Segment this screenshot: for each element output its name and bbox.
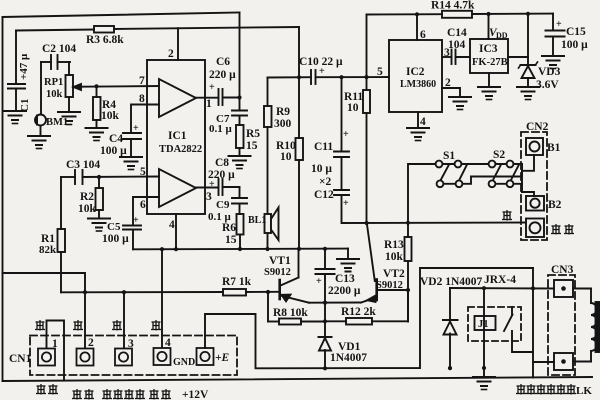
wire pin4 bbox=[175, 214, 177, 250]
label red bbox=[112, 320, 122, 331]
svg-text:15: 15 bbox=[246, 140, 258, 152]
wire IC2 pin6 bbox=[416, 14, 418, 40]
ground under relay bbox=[473, 377, 495, 390]
wire inner top line (R3 line) bbox=[16, 30, 94, 32]
svg-text:C11: C11 bbox=[314, 141, 333, 153]
zener diode VD3 bbox=[519, 62, 538, 86]
svg-text:7: 7 bbox=[139, 75, 145, 87]
svg-text:C14: C14 bbox=[447, 27, 467, 39]
svg-text:+12V: +12V bbox=[182, 389, 209, 400]
diode VD2 bbox=[443, 288, 458, 368]
svg-text:2: 2 bbox=[445, 77, 451, 89]
switch S2 blades bbox=[494, 166, 501, 180]
svg-text:S1: S1 bbox=[443, 150, 455, 162]
wire top outer line bbox=[3, 13, 240, 18]
socket CN3 top bbox=[554, 280, 573, 297]
wire output pin3 bbox=[196, 187, 219, 189]
svg-text:FK-27B: FK-27B bbox=[472, 57, 508, 68]
svg-text:R13: R13 bbox=[384, 239, 404, 251]
wire S1 feed bbox=[408, 164, 436, 237]
relay J1 coil bbox=[483, 288, 485, 376]
resistor R7 bbox=[223, 289, 246, 296]
wire supply top line bbox=[367, 13, 443, 15]
svg-text:+: + bbox=[209, 179, 215, 190]
svg-text:15: 15 bbox=[225, 234, 237, 246]
svg-text:R3 6.8k: R3 6.8k bbox=[86, 34, 124, 46]
capacitor C8 bbox=[219, 179, 240, 195]
svg-text:6: 6 bbox=[420, 29, 426, 41]
wire socket2 line bbox=[3, 273, 86, 348]
svg-text:LK: LK bbox=[576, 385, 592, 397]
ground at bus end bbox=[337, 259, 359, 272]
wire right vertical upper bbox=[239, 13, 241, 111]
svg-text:10 μ: 10 μ bbox=[311, 163, 332, 175]
relay J1 coil box bbox=[475, 316, 496, 330]
wire +E feed bbox=[205, 268, 533, 368]
svg-text:8: 8 bbox=[139, 93, 145, 105]
wire ground-bus end stem bbox=[347, 249, 349, 258]
svg-text:100 μ: 100 μ bbox=[561, 39, 588, 51]
svg-text:10k: 10k bbox=[78, 203, 97, 215]
resistor R13 bbox=[405, 237, 412, 322]
svg-text:R9: R9 bbox=[276, 106, 290, 118]
svg-text:C9: C9 bbox=[216, 199, 230, 211]
capacitor C4 bbox=[123, 133, 141, 156]
wire VT1 base line bbox=[61, 291, 223, 293]
label ground-wire bbox=[149, 389, 171, 400]
svg-text:1N4007: 1N4007 bbox=[330, 352, 367, 364]
wire switch row1 bbox=[436, 163, 522, 165]
socket CN1-4 bbox=[154, 348, 171, 365]
label lock-coil LK bbox=[516, 384, 592, 397]
svg-text:LM3860: LM3860 bbox=[400, 79, 436, 90]
svg-text:R6: R6 bbox=[222, 222, 236, 234]
svg-text:10k: 10k bbox=[46, 89, 63, 100]
resistor R9 bbox=[264, 78, 272, 250]
svg-text:3: 3 bbox=[128, 338, 134, 350]
switch S1 contacts bbox=[436, 161, 463, 188]
ground under C1 bbox=[4, 111, 26, 124]
wire VD3 stem bbox=[527, 14, 529, 64]
svg-text:BM1: BM1 bbox=[46, 117, 68, 128]
wire line to IC2 pin5 bbox=[316, 76, 390, 78]
wire left border bbox=[2, 17, 4, 381]
svg-text:10k: 10k bbox=[101, 110, 120, 122]
socket CN1-2 bbox=[77, 349, 94, 366]
svg-text:VT2: VT2 bbox=[383, 268, 405, 280]
ground under VD3 bbox=[517, 87, 539, 100]
capacitor C14 bbox=[452, 50, 471, 65]
op-amp U1a triangle bbox=[159, 79, 196, 117]
svg-text:J1: J1 bbox=[478, 319, 489, 330]
wire IC2 pin2 bbox=[442, 88, 460, 96]
wire socket1 hook bbox=[47, 321, 65, 381]
wire C15 stem bbox=[552, 14, 554, 31]
svg-text:+: + bbox=[209, 82, 215, 93]
wire CN3 bottom to coil bbox=[573, 361, 591, 363]
ground under R5 bbox=[229, 156, 251, 169]
resistor R11 bbox=[363, 90, 370, 223]
wire switch middle link bbox=[471, 164, 522, 177]
svg-text:VT1: VT1 bbox=[269, 255, 291, 267]
svg-text:C12: C12 bbox=[314, 189, 334, 201]
wire IC2 pin4 bbox=[417, 112, 419, 127]
svg-text:10: 10 bbox=[347, 102, 359, 114]
potentiometer RP1 bbox=[66, 62, 82, 111]
wire pin2 bbox=[177, 28, 179, 60]
diode VD1 bbox=[319, 337, 332, 368]
svg-text:C1: C1 bbox=[19, 99, 31, 112]
svg-text:+: + bbox=[133, 215, 139, 226]
socket bell bbox=[526, 219, 544, 238]
wire relay mid line to CN3 bbox=[450, 287, 554, 290]
wire C10 feed line bbox=[268, 76, 312, 78]
socket B1 bbox=[526, 138, 543, 155]
wire C1 stem bbox=[15, 31, 17, 85]
svg-text:IC2: IC2 bbox=[406, 66, 425, 78]
svg-text:+: + bbox=[316, 276, 322, 287]
svg-text:VD2 1N4007: VD2 1N4007 bbox=[420, 276, 483, 288]
capacitor C3 bbox=[61, 170, 83, 184]
capacitor C11 bbox=[334, 77, 349, 157]
svg-text:5: 5 bbox=[377, 66, 383, 78]
wire IC3 to VD3 bbox=[508, 56, 528, 58]
wire pin8 line bbox=[131, 105, 159, 134]
wire CN3 top to coil bbox=[573, 288, 591, 290]
svg-text:S2: S2 bbox=[493, 149, 505, 161]
wire slant to VT2 base bbox=[367, 223, 375, 281]
wire switch row2 right bbox=[490, 183, 522, 185]
label green bbox=[73, 320, 83, 331]
svg-text:B1: B1 bbox=[547, 142, 561, 154]
capacitor C13 bbox=[316, 249, 335, 337]
svg-text:IC1: IC1 bbox=[168, 130, 187, 142]
connector CN3 dashed box bbox=[548, 275, 575, 375]
capacitor C12 bbox=[334, 157, 349, 195]
wire B1 drop bbox=[522, 155, 534, 171]
ground under R2 bbox=[88, 219, 110, 232]
svg-text:C15: C15 bbox=[566, 26, 586, 38]
svg-text:C5: C5 bbox=[107, 221, 121, 233]
socket CN1-1 bbox=[38, 349, 55, 366]
wire emitter line bbox=[309, 302, 361, 304]
wire IC2 pin3 bbox=[442, 56, 452, 58]
svg-text:CN1: CN1 bbox=[9, 353, 32, 365]
socket CN1-+E bbox=[197, 348, 214, 365]
microphone BM1 bbox=[35, 115, 46, 126]
socket B2 bbox=[526, 196, 544, 211]
svg-text:R2: R2 bbox=[80, 191, 94, 203]
svg-text:JRX-4: JRX-4 bbox=[484, 274, 516, 286]
svg-text:300: 300 bbox=[274, 118, 292, 130]
wire BM1 stem bbox=[40, 62, 42, 115]
wire bottom border bbox=[3, 377, 593, 381]
svg-text:1: 1 bbox=[52, 338, 58, 350]
connector CN1 dashed box bbox=[30, 336, 237, 376]
svg-text:6: 6 bbox=[140, 199, 146, 211]
connector CN2 dashed box bbox=[521, 132, 547, 240]
wire ground bus bbox=[133, 248, 348, 251]
op-amp IC1 box bbox=[147, 60, 205, 214]
ground at IC2 pin2 bbox=[449, 97, 471, 110]
svg-text:×2: ×2 bbox=[319, 176, 332, 188]
svg-text:+E: +E bbox=[215, 352, 230, 364]
capacitor C10 bbox=[311, 70, 316, 84]
speaker BL1 bbox=[265, 208, 279, 241]
resistor R12 bbox=[325, 290, 408, 325]
IC2 LM3860 box bbox=[389, 40, 442, 112]
relay contact blade bbox=[504, 307, 533, 352]
transistor VT2 bbox=[361, 280, 408, 303]
svg-text:4: 4 bbox=[420, 116, 426, 128]
svg-text:R14 4.7k: R14 4.7k bbox=[431, 0, 475, 12]
svg-text:104: 104 bbox=[448, 39, 466, 51]
resistor R10 bbox=[296, 27, 304, 249]
svg-text:100 μ: 100 μ bbox=[102, 233, 129, 245]
capacitor C1 bbox=[8, 84, 25, 89]
svg-text:R12 2k: R12 2k bbox=[341, 306, 376, 318]
socket CN1-3 bbox=[115, 349, 132, 366]
svg-text:2: 2 bbox=[88, 337, 94, 349]
svg-text:2200 μ: 2200 μ bbox=[328, 285, 361, 297]
svg-text:TDA2822: TDA2822 bbox=[159, 144, 202, 155]
svg-text:GND: GND bbox=[173, 357, 195, 368]
label yellow bbox=[35, 320, 45, 331]
ground under RP1 bbox=[58, 112, 80, 125]
resistor R6 bbox=[237, 204, 244, 250]
socket CN3 bottom bbox=[554, 353, 573, 370]
svg-text:+: + bbox=[556, 19, 562, 30]
svg-text:C6: C6 bbox=[216, 56, 230, 68]
resistor R2 bbox=[96, 177, 104, 218]
label unlock bbox=[36, 384, 58, 395]
resistor R14 bbox=[442, 11, 472, 18]
svg-text:R7 1k: R7 1k bbox=[222, 276, 252, 288]
svg-text:DD: DD bbox=[496, 31, 508, 40]
svg-text:3: 3 bbox=[206, 191, 212, 203]
svg-text:0.1 μ: 0.1 μ bbox=[209, 123, 233, 135]
label C1 rotated bbox=[18, 53, 31, 112]
svg-text:S9012: S9012 bbox=[264, 267, 291, 278]
svg-text:C2 104: C2 104 bbox=[42, 43, 76, 55]
relay JRX-4 dashed box bbox=[468, 307, 521, 341]
wire switch row2 left bbox=[439, 177, 471, 184]
svg-text:+: + bbox=[319, 66, 325, 77]
svg-text:RP1: RP1 bbox=[44, 77, 63, 88]
transistor VT1 bbox=[280, 249, 309, 303]
resistor R8 bbox=[268, 292, 325, 325]
wire socket3 line bbox=[123, 292, 125, 348]
wire IC3 VDD feed bbox=[488, 14, 490, 39]
svg-text:C8: C8 bbox=[215, 157, 229, 169]
svg-text:CN2: CN2 bbox=[526, 121, 549, 133]
capacitor C2 bbox=[41, 55, 70, 69]
wire pin5 line bbox=[83, 176, 160, 179]
wire CN3 bottom link bbox=[533, 361, 554, 363]
wire relay right vertical bbox=[532, 268, 534, 378]
label black bbox=[151, 320, 161, 331]
svg-text:C13: C13 bbox=[335, 273, 355, 285]
svg-text:100 μ: 100 μ bbox=[100, 145, 127, 157]
capacitor C7 bbox=[232, 111, 247, 116]
IC3 FK-27B box bbox=[470, 39, 508, 73]
svg-text:CN3: CN3 bbox=[551, 264, 574, 276]
svg-text:2: 2 bbox=[168, 48, 174, 60]
svg-text:+: + bbox=[343, 198, 349, 209]
svg-text:1: 1 bbox=[206, 98, 212, 110]
svg-text:IC3: IC3 bbox=[479, 43, 498, 55]
wire pin7 line bbox=[81, 85, 159, 88]
label ring-bell bbox=[551, 224, 574, 235]
capacitor C5 bbox=[123, 197, 159, 249]
svg-text:R5: R5 bbox=[246, 128, 260, 140]
capacitor C15 bbox=[546, 31, 565, 37]
svg-text:S9012: S9012 bbox=[376, 280, 403, 291]
wire B2 link bbox=[522, 192, 534, 196]
ground under C15 bbox=[542, 56, 564, 69]
wire socket4 line bbox=[161, 249, 163, 347]
resistor R5 bbox=[236, 116, 244, 156]
switch S2 contacts bbox=[489, 161, 514, 188]
svg-text:R8 10k: R8 10k bbox=[273, 307, 308, 319]
svg-text:C3 104: C3 104 bbox=[66, 159, 100, 171]
svg-text:+: + bbox=[133, 123, 139, 134]
svg-text:10: 10 bbox=[280, 151, 292, 163]
wire output pin1 bbox=[196, 97, 219, 99]
svg-text:82k: 82k bbox=[39, 244, 57, 256]
svg-text:4: 4 bbox=[169, 219, 175, 231]
inductor core bar bbox=[596, 302, 600, 352]
switch S1 blades bbox=[441, 166, 449, 180]
wire R11 column bbox=[366, 15, 368, 91]
label blue bbox=[502, 210, 512, 221]
svg-text:B2: B2 bbox=[548, 199, 562, 211]
label send-voice bbox=[72, 389, 94, 400]
label talkback-feed bbox=[102, 389, 145, 400]
svg-text:+: + bbox=[343, 129, 349, 140]
resistor R3 bbox=[94, 26, 114, 33]
ground under R4 bbox=[86, 128, 108, 141]
ground under BM1 bbox=[28, 136, 50, 149]
svg-text:+47 μ: +47 μ bbox=[18, 53, 30, 80]
svg-text:4: 4 bbox=[165, 337, 171, 349]
resistor R1 bbox=[58, 177, 66, 292]
svg-text:BL1: BL1 bbox=[248, 215, 266, 226]
ground under C4 bbox=[120, 157, 142, 170]
resistor R4 bbox=[93, 87, 101, 128]
svg-text:C4: C4 bbox=[109, 133, 123, 145]
inductor LK coil bbox=[591, 289, 597, 362]
svg-text:220 μ: 220 μ bbox=[209, 69, 236, 81]
ground at IC2 pin4 bbox=[407, 128, 429, 141]
wire blue line to bell bbox=[342, 195, 527, 223]
capacitor C9 bbox=[232, 187, 247, 204]
ground under IC3 bbox=[478, 87, 500, 100]
svg-text:3.6V: 3.6V bbox=[536, 79, 559, 91]
svg-text:10k: 10k bbox=[385, 251, 404, 263]
svg-text:5: 5 bbox=[140, 166, 146, 178]
op-amp U1b triangle bbox=[159, 169, 196, 207]
wire IC3 ground stem bbox=[488, 73, 490, 86]
capacitor C6 bbox=[219, 89, 240, 105]
svg-text:VD3: VD3 bbox=[538, 66, 561, 78]
